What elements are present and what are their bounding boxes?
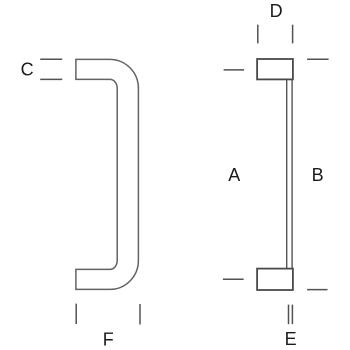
dimension E left tick — [288, 305, 290, 325]
dimension E right tick — [291, 305, 293, 325]
dimension B bottom tick — [307, 289, 327, 291]
front-view top fixing plate — [257, 59, 293, 79]
dimension C lower tick — [40, 78, 62, 80]
dimension C upper tick — [40, 58, 62, 60]
svg-text:B: B — [312, 165, 324, 185]
dimension A top tick — [224, 69, 245, 71]
svg-text:A: A — [228, 165, 240, 185]
svg-text:E: E — [285, 329, 297, 349]
dimension D left tick — [257, 25, 259, 44]
svg-text:C: C — [21, 60, 34, 80]
handle side-view outline (left figure) — [76, 59, 139, 289]
front-view bar right edge — [291, 80, 293, 269]
dimension F right tick — [139, 304, 141, 325]
svg-text:F: F — [103, 330, 114, 350]
dimension D right tick — [292, 25, 294, 44]
dimension A bottom tick — [223, 278, 244, 280]
dimension F left tick — [75, 304, 77, 324]
front-view bar left edge — [286, 80, 288, 269]
svg-text:D: D — [270, 1, 283, 21]
dimension B top tick — [307, 58, 329, 60]
front-view bottom fixing plate — [257, 269, 293, 290]
